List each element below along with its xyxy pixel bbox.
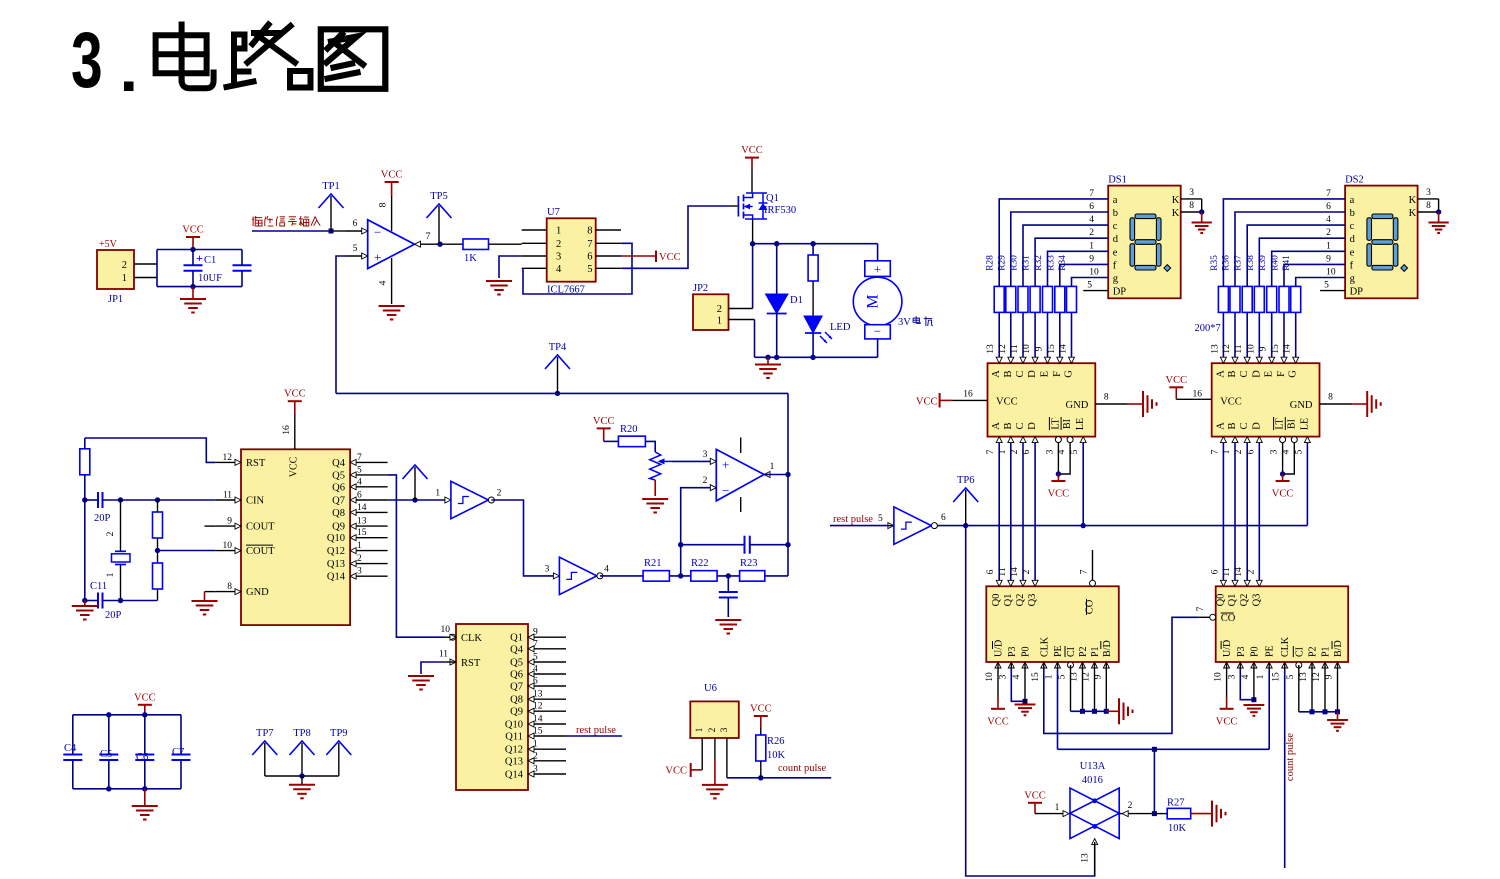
pin counter P3 3	[1008, 662, 1014, 668]
svg-text:6: 6	[941, 513, 946, 523]
pin counter CI 5	[1068, 662, 1074, 668]
IC counter 4029 U11	[1216, 586, 1349, 662]
svg-text:1: 1	[1089, 241, 1094, 251]
svg-text:Q5: Q5	[332, 470, 345, 481]
svg-text:13: 13	[1299, 672, 1309, 682]
svg-text:15: 15	[1047, 344, 1057, 354]
pin U7.2	[522, 242, 547, 244]
pin decoder C 11	[1020, 357, 1026, 363]
pin counter PE 1	[1266, 662, 1272, 668]
svg-text:−: −	[722, 483, 729, 498]
svg-text:16: 16	[1192, 390, 1202, 400]
svg-text:6: 6	[1089, 202, 1094, 212]
ground	[715, 619, 741, 621]
svg-text:7: 7	[357, 453, 362, 463]
title text 电	[179, 25, 185, 81]
svg-text:+: +	[874, 262, 881, 277]
svg-text:16: 16	[963, 390, 973, 400]
capacitor C11 20P	[85, 600, 98, 602]
test point TP1	[319, 194, 344, 208]
junction	[437, 242, 442, 247]
schmitt buffer U3C	[888, 523, 894, 529]
pin U7.1	[522, 229, 547, 231]
wire bottom row	[103, 600, 158, 602]
pin counter CO 7	[1210, 614, 1216, 620]
pin decoder D 10	[1256, 357, 1262, 363]
pin counter P2 13	[1080, 662, 1086, 668]
svg-text:1: 1	[533, 740, 538, 750]
capacitor C4	[72, 715, 74, 755]
ground	[702, 784, 728, 786]
ground	[1337, 712, 1339, 720]
svg-text:1: 1	[1055, 803, 1060, 813]
pin counter P1 12	[1092, 662, 1098, 668]
resistor divider top	[157, 500, 159, 512]
svg-text:VCC: VCC	[1272, 489, 1294, 500]
junction	[299, 773, 304, 778]
svg-text:8: 8	[379, 202, 389, 207]
svg-text:d: d	[1350, 234, 1356, 245]
svg-text:Q14: Q14	[505, 770, 524, 781]
wire decoder input to counter	[1258, 443, 1260, 587]
pin decoder input A	[1220, 437, 1226, 443]
wire count pulse	[727, 777, 831, 779]
wire left column	[84, 500, 86, 601]
wire resistor to display	[1259, 238, 1345, 286]
capacitor 20P	[97, 492, 99, 508]
svg-text:3: 3	[703, 450, 708, 460]
pin decoder input B	[1232, 437, 1238, 443]
wire rest pulse	[566, 735, 622, 737]
svg-text:b: b	[1113, 208, 1118, 219]
junction	[1092, 709, 1097, 714]
svg-text:Q5: Q5	[510, 658, 523, 669]
svg-text:VCC: VCC	[750, 704, 772, 715]
svg-text:4: 4	[533, 665, 538, 675]
pin 4060 RST 12	[215, 461, 241, 463]
svg-text:11: 11	[1010, 344, 1020, 353]
svg-text:B/D: B/D	[1333, 640, 1344, 657]
svg-text:13: 13	[1081, 853, 1091, 863]
svg-text:Q8: Q8	[332, 508, 345, 519]
pin counter B/D 9	[1103, 662, 1109, 668]
svg-text:Q4: Q4	[510, 644, 524, 655]
IC decoder 4511 U8	[988, 363, 1096, 436]
junction	[810, 241, 815, 246]
title text 路	[234, 35, 245, 49]
svg-text:3: 3	[71, 16, 103, 104]
svg-text:K: K	[1172, 195, 1180, 206]
svg-text:Q12: Q12	[327, 546, 345, 557]
wire cap bank bottom	[73, 788, 181, 790]
pin 4040 Q1 9	[528, 636, 566, 638]
svg-text:d: d	[1113, 234, 1119, 245]
junction	[106, 712, 111, 717]
wire PE1 to rail	[1057, 662, 1059, 670]
junction	[765, 355, 770, 360]
wire	[103, 499, 216, 501]
resistor R29	[1006, 286, 1016, 312]
svg-text:A: A	[1215, 370, 1226, 378]
junction	[190, 284, 195, 289]
wire resistor to decoder	[1022, 313, 1024, 363]
svg-text:JP2: JP2	[693, 283, 708, 294]
svg-text:16: 16	[282, 425, 292, 435]
svg-text:Q2: Q2	[1239, 594, 1250, 607]
svg-text:4: 4	[1012, 674, 1022, 679]
junction	[190, 247, 195, 252]
pin decoder BI 4	[1291, 437, 1297, 443]
svg-text:200*7: 200*7	[1195, 323, 1221, 334]
svg-text:14: 14	[1059, 344, 1069, 354]
pin 4040 Q8 13	[528, 698, 566, 700]
diode D1	[776, 244, 778, 294]
wire resistor to decoder	[1283, 313, 1285, 363]
wire test points	[265, 775, 339, 777]
svg-text:1: 1	[717, 316, 722, 327]
ground	[301, 776, 303, 785]
connector JP2	[693, 294, 729, 330]
svg-text:3: 3	[533, 765, 538, 775]
pin decoder LT 3	[1055, 437, 1061, 443]
svg-text:Q2: Q2	[1015, 594, 1026, 607]
svg-text:R28: R28	[986, 255, 996, 271]
wire Q7 to buffer	[388, 499, 446, 501]
svg-text:R36: R36	[1222, 255, 1232, 271]
svg-text:6: 6	[1022, 449, 1032, 454]
resistor R39	[1267, 286, 1277, 312]
pin 4040 Q9 12	[528, 710, 566, 712]
svg-text:GND: GND	[246, 587, 269, 598]
svg-text:C: C	[1239, 422, 1250, 429]
svg-text:R31: R31	[1022, 255, 1032, 271]
svg-text:6: 6	[587, 252, 592, 263]
svg-text:12: 12	[1222, 344, 1232, 354]
svg-text:E: E	[1040, 371, 1051, 377]
power VCC	[597, 427, 611, 429]
svg-text:C: C	[1015, 370, 1026, 377]
svg-text:R37: R37	[1234, 255, 1244, 271]
wire resistor to decoder	[1271, 313, 1273, 363]
wire resistor to decoder	[1047, 313, 1049, 363]
svg-text:Q13: Q13	[327, 559, 345, 570]
svg-text:P1: P1	[1090, 646, 1101, 657]
junction	[82, 598, 87, 603]
svg-text:CLK: CLK	[1039, 636, 1050, 657]
pin 4040 Q7 6	[528, 685, 566, 687]
wire resistor to display	[999, 199, 1108, 287]
pin decoder E 9	[1045, 357, 1051, 363]
pin 4060 COUT 9	[215, 525, 241, 527]
svg-text:1: 1	[998, 449, 1008, 454]
resistor R34	[1067, 286, 1077, 312]
svg-text:5: 5	[1324, 281, 1329, 291]
pin counter Q0	[1220, 580, 1226, 586]
svg-text:R34: R34	[1058, 255, 1068, 271]
pin decoder E 9	[1269, 357, 1275, 363]
svg-text:3: 3	[998, 674, 1008, 679]
svg-text:12: 12	[1312, 672, 1322, 682]
svg-text:VCC: VCC	[593, 416, 615, 427]
svg-text:1: 1	[435, 489, 440, 499]
pin U6.2 to ground	[714, 738, 716, 760]
wire R20 to trimmer	[645, 441, 655, 452]
svg-text:R23: R23	[740, 558, 758, 569]
pin counter P0 4	[1022, 662, 1028, 668]
wire	[717, 575, 740, 577]
wire decoder input to counter	[1034, 443, 1036, 587]
pin decoder input A	[996, 437, 1002, 443]
svg-text:8: 8	[1328, 393, 1333, 403]
op-amp comparator U1	[368, 220, 415, 269]
ground	[144, 789, 146, 806]
pin decoder C 11	[1244, 357, 1250, 363]
svg-text:8: 8	[1426, 201, 1431, 211]
pins DS1 cathode	[1181, 198, 1202, 200]
junction	[678, 573, 683, 578]
svg-text:CLK: CLK	[461, 633, 482, 644]
wire Q5 to 4040 clock	[388, 475, 444, 637]
ground	[1244, 704, 1265, 706]
junction	[1310, 709, 1315, 714]
svg-text:BI: BI	[1062, 419, 1073, 429]
svg-text:1: 1	[357, 541, 362, 551]
pin counter U/D 10	[1224, 662, 1230, 668]
power port VCC pin16	[1169, 386, 1183, 388]
svg-text:−: −	[874, 324, 881, 339]
wire LE to rail	[1082, 443, 1084, 526]
pin 4040 Q4 7	[528, 648, 566, 650]
svg-text:f: f	[1350, 260, 1354, 271]
svg-text:14: 14	[357, 503, 367, 513]
pin 4060 Q13 2	[350, 563, 388, 565]
svg-text:C7: C7	[172, 747, 184, 758]
svg-text:1: 1	[695, 727, 705, 732]
pin decoder F 15	[1281, 357, 1287, 363]
pin U13A.13	[1092, 839, 1098, 845]
svg-text:2: 2	[703, 476, 708, 486]
svg-text:R30: R30	[1010, 255, 1020, 271]
svg-text:7: 7	[426, 232, 431, 242]
power VCC	[186, 236, 200, 238]
pin 4 ground	[391, 258, 393, 304]
svg-text:P2: P2	[1308, 646, 1319, 657]
svg-text:VCC: VCC	[916, 397, 938, 408]
svg-text:10: 10	[223, 541, 233, 551]
svg-text:10K: 10K	[1168, 823, 1187, 834]
pin 4040 Q11 15	[528, 735, 566, 737]
svg-text:8: 8	[227, 582, 232, 592]
pin U13A.2	[1119, 813, 1154, 815]
pin 1 output	[764, 472, 770, 478]
trimmer resistor	[650, 452, 661, 480]
junction	[1152, 811, 1157, 816]
capacitor	[233, 264, 252, 266]
wire resistor to display	[1284, 264, 1345, 286]
svg-text:3: 3	[545, 565, 550, 575]
svg-text:+: +	[196, 251, 203, 265]
svg-text:P3: P3	[1236, 646, 1247, 657]
svg-text:10: 10	[1022, 344, 1032, 354]
svg-text:G: G	[1064, 370, 1075, 378]
svg-text:VCC: VCC	[741, 145, 763, 156]
junction	[329, 229, 334, 234]
svg-text:11: 11	[223, 491, 232, 501]
resistor LED series	[812, 244, 814, 255]
crystal Y1	[120, 500, 122, 551]
pin decoder A 13	[996, 357, 1002, 363]
svg-text:C: C	[1015, 422, 1026, 429]
pin 5 non-inverting input	[346, 255, 368, 257]
svg-text:Q4: Q4	[332, 458, 346, 469]
svg-text:4016: 4016	[1082, 775, 1103, 786]
svg-text:K: K	[1409, 195, 1417, 206]
pin 4060 Q8 14	[350, 511, 388, 513]
svg-text:Q9: Q9	[510, 707, 523, 718]
digit DS2	[1372, 214, 1393, 219]
resistor 1K	[463, 239, 489, 250]
pin 4040 Q12 1	[528, 748, 566, 750]
svg-text:LT: LT	[1275, 418, 1286, 429]
svg-text:Q0: Q0	[1215, 594, 1226, 607]
pin decoder A 13	[1220, 357, 1226, 363]
svg-text:9: 9	[227, 517, 232, 527]
pin 4060 Q12 1	[350, 550, 388, 552]
svg-text:1: 1	[106, 572, 116, 577]
resistor R33	[1055, 286, 1065, 312]
pin counter CO 7	[1090, 580, 1096, 586]
resistor R21	[643, 571, 669, 582]
junction	[1280, 471, 1285, 476]
capacitor C5	[108, 715, 110, 755]
pin 4060 CIN 11	[215, 499, 241, 501]
svg-text:RST: RST	[246, 458, 266, 469]
pin 4060 Q9 13	[350, 525, 388, 527]
svg-text:LE: LE	[1299, 418, 1310, 430]
wire resistor to decoder	[1246, 313, 1248, 363]
pin U7.3	[522, 255, 547, 257]
wire resistor to decoder	[1010, 313, 1012, 363]
svg-text:R27: R27	[1167, 798, 1185, 809]
resistor R41	[1291, 286, 1301, 312]
svg-text:2: 2	[106, 531, 116, 536]
IC U4 4060 counter	[241, 449, 350, 625]
svg-text:3: 3	[1270, 449, 1280, 454]
resistor R23	[740, 571, 765, 582]
power port VCC	[622, 255, 656, 257]
svg-text:14: 14	[1283, 344, 1293, 354]
pin 4060 Q5 5	[350, 474, 388, 476]
pin counter Q3	[1032, 580, 1038, 586]
svg-text:VCC: VCC	[1166, 375, 1188, 386]
pin 6 inverting input	[346, 230, 368, 232]
wire decoder input to counter	[1246, 443, 1248, 587]
pin 4060 Q14 3	[350, 575, 388, 577]
svg-text:4: 4	[1281, 449, 1291, 454]
svg-text:f: f	[1113, 260, 1117, 271]
svg-text:Q10: Q10	[327, 533, 345, 544]
svg-text:10: 10	[1214, 672, 1224, 682]
svg-text:3: 3	[1227, 674, 1237, 679]
pin U7.5	[596, 267, 622, 269]
pin DS1 DP	[1083, 290, 1108, 292]
pin 4040 Q14 3	[528, 773, 566, 775]
capacitor filter	[727, 576, 729, 592]
pin U6.1 to VCC	[701, 738, 703, 770]
svg-text:8: 8	[587, 226, 592, 237]
wire VCC to Q1 drain	[751, 168, 753, 193]
svg-text:2: 2	[1010, 449, 1020, 454]
svg-text:15: 15	[1031, 672, 1041, 682]
pin decoder input B	[1008, 437, 1014, 443]
pin counter Q1	[1008, 580, 1014, 586]
junction	[774, 241, 779, 246]
svg-text:P3: P3	[1007, 646, 1018, 657]
svg-text:6: 6	[1210, 569, 1220, 574]
resistor R32	[1043, 286, 1053, 312]
svg-text:C6: C6	[136, 752, 148, 763]
pin decoder F 15	[1057, 357, 1063, 363]
wire input signal	[252, 230, 331, 232]
IC counter 4029 U10	[986, 586, 1119, 662]
pin counter CLK 15	[1041, 662, 1047, 668]
title text 图	[321, 29, 386, 89]
wire bottom rail	[755, 356, 878, 358]
wire comparator output column	[787, 393, 789, 576]
svg-text:11: 11	[439, 650, 448, 660]
svg-text:F: F	[1052, 371, 1063, 377]
resistor R35	[1218, 286, 1228, 312]
display DS2 7-segment	[1345, 186, 1418, 299]
IC decoder 4511 U9	[1212, 363, 1320, 436]
wire resistor to decoder	[1234, 313, 1236, 363]
junction	[412, 497, 417, 502]
svg-text:G: G	[1288, 370, 1299, 378]
junction	[142, 786, 147, 791]
connector JP1	[97, 250, 134, 289]
wire resistor to decoder	[1258, 313, 1260, 363]
svg-text:13: 13	[533, 690, 543, 700]
pin U6.3 count pulse	[726, 738, 728, 778]
power VCC	[138, 704, 152, 706]
junction	[750, 241, 755, 246]
svg-text:+: +	[374, 250, 381, 265]
svg-text:3V: 3V	[898, 317, 911, 328]
svg-text:Q1: Q1	[1003, 594, 1014, 607]
svg-text:C11: C11	[90, 581, 107, 592]
wire decoder input to counter	[1222, 443, 1224, 587]
svg-text:D: D	[1027, 370, 1038, 378]
svg-text:4: 4	[1326, 215, 1331, 225]
display DS1 7-segment	[1108, 186, 1181, 299]
svg-text:U7: U7	[547, 207, 560, 218]
svg-text:10: 10	[985, 672, 995, 682]
svg-text:13: 13	[357, 517, 367, 527]
svg-text:9: 9	[1326, 254, 1331, 264]
wire CLK1 from CO2	[1044, 617, 1199, 733]
svg-text:2: 2	[533, 751, 538, 761]
wire COUT open	[205, 525, 216, 527]
power VCC	[1028, 802, 1042, 804]
svg-text:1: 1	[770, 462, 775, 472]
svg-text:3: 3	[357, 567, 362, 577]
svg-text:VCC: VCC	[134, 692, 156, 703]
wire decoder input to counter	[1022, 443, 1024, 587]
svg-text:B: B	[1227, 370, 1238, 377]
wire TP6 to U13 pin13	[966, 526, 1095, 876]
svg-text:4: 4	[379, 280, 389, 285]
svg-text:LT: LT	[1050, 418, 1061, 429]
